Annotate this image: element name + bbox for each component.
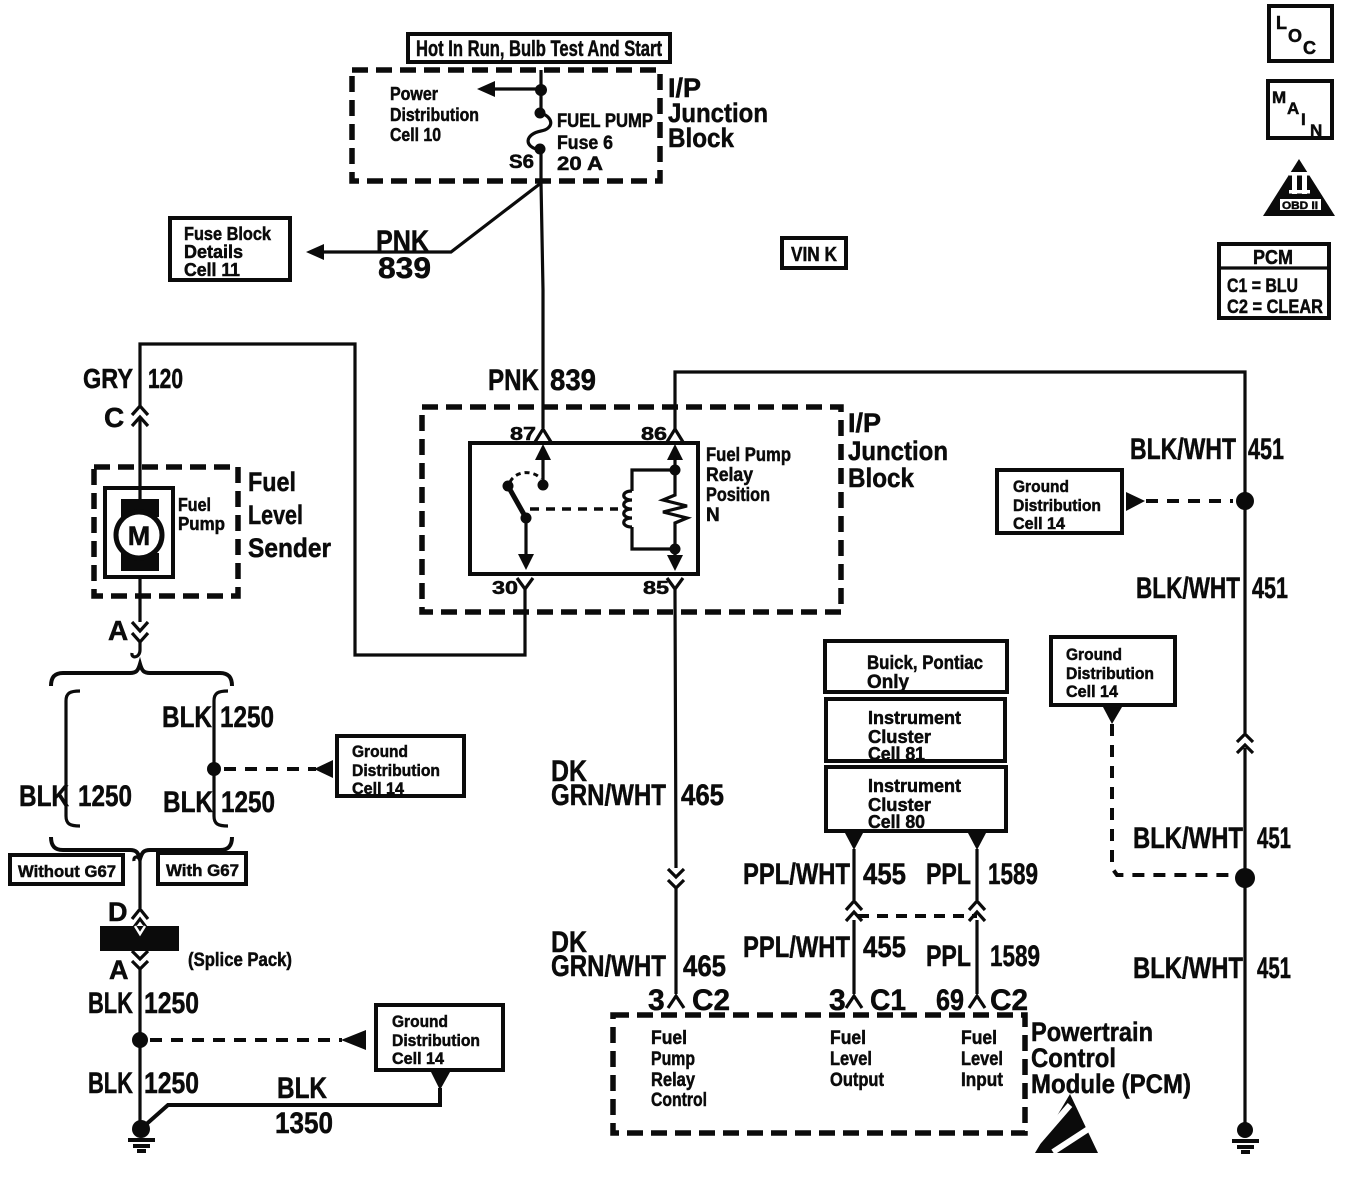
ground distribution cell 14 box (mid right)	[1051, 637, 1175, 705]
arrowhead from ground distribution box (upper right)	[1126, 492, 1145, 511]
dashed link to BLK/WHT wire	[1146, 499, 1233, 503]
svg-text:1250: 1250	[144, 987, 199, 1020]
wire label BLK 1250 (upper)	[88, 987, 199, 1020]
fuel level sender dashed box	[94, 467, 238, 596]
OBD II symbol triangle	[1263, 159, 1335, 216]
svg-text:C1 = BLU: C1 = BLU	[1227, 276, 1298, 297]
svg-text:86: 86	[641, 424, 667, 444]
I/P junction block (relay) dashed box	[422, 407, 841, 612]
wire tail with hook above brace	[132, 640, 140, 657]
fuel level input pin label	[961, 1028, 1004, 1091]
wire from fuse down to relay pin 87	[541, 149, 543, 428]
svg-text:M: M	[1272, 88, 1286, 107]
svg-text:Details: Details	[184, 242, 243, 262]
svg-text:BLK: BLK	[19, 780, 69, 813]
wire label PPL 1589 (upper)	[926, 858, 1038, 891]
fuse F6 FUEL PUMP fuse symbol	[528, 108, 551, 155]
svg-text:Cell 10: Cell 10	[390, 125, 441, 145]
svg-text:With G67: With G67	[166, 861, 239, 880]
pin 3 C2 label	[648, 984, 730, 1017]
svg-text:Fuel: Fuel	[248, 467, 296, 497]
svg-text:L: L	[1276, 13, 1287, 33]
I/P junction block (top) dashed box	[352, 70, 660, 181]
svg-text:87: 87	[510, 424, 536, 444]
svg-text:3: 3	[829, 984, 846, 1017]
wire label BLK/WHT 451 (second)	[1136, 572, 1288, 605]
hot in run bulb test and start label box	[408, 34, 670, 62]
ground G (left)	[128, 1120, 155, 1151]
svg-text:O: O	[1288, 26, 1302, 46]
splice pack block	[100, 926, 179, 951]
svg-text:Block: Block	[668, 123, 735, 153]
svg-text:1250: 1250	[78, 780, 132, 813]
arrowhead below cluster box (left)	[845, 833, 863, 850]
brace over ground wire choices	[51, 664, 232, 686]
wire label BLK 1250 (without G67)	[19, 780, 132, 813]
svg-text:Cell 14: Cell 14	[1066, 682, 1119, 701]
svg-text:Distribution: Distribution	[352, 761, 440, 780]
wire choice with G67 (bracketed line)	[214, 691, 228, 826]
svg-text:839: 839	[378, 252, 431, 285]
wire label BLK 1250 (with G67 lower)	[163, 786, 275, 819]
node coil top	[670, 465, 681, 476]
svg-text:Cell 14: Cell 14	[1013, 514, 1066, 533]
wire PPL/WHT 455	[852, 849, 855, 994]
wire from connector C to fuel pump motor	[138, 417, 141, 500]
svg-text:GRN/WHT: GRN/WHT	[551, 950, 666, 983]
instrument cluster cell 81 box	[826, 699, 1005, 764]
dashed link between PPL/WHT and PPL wires	[858, 914, 977, 918]
svg-text:C2 = CLEAR: C2 = CLEAR	[1227, 297, 1323, 318]
svg-text:Position: Position	[706, 485, 770, 506]
svg-text:FUEL PUMP: FUEL PUMP	[557, 111, 653, 132]
svg-text:Ground: Ground	[352, 742, 408, 761]
ground distribution cell 14 box (mid left)	[337, 736, 464, 798]
svg-text:M: M	[128, 521, 151, 551]
I/P junction block (top) label	[668, 73, 768, 153]
svg-text:Instrument: Instrument	[868, 708, 961, 728]
relay switch fixed contact	[503, 481, 514, 492]
with G67 label box	[158, 853, 246, 884]
wire label BLK/WHT 451 (first)	[1130, 433, 1284, 466]
wire from hot feed down to fuse	[539, 70, 542, 114]
node switch common	[521, 513, 532, 524]
svg-text:1250: 1250	[221, 786, 275, 819]
svg-text:Fuel: Fuel	[830, 1028, 866, 1049]
wire label PPL/WHT 455 (upper)	[743, 858, 906, 891]
wire label PNK 839 (at relay)	[488, 364, 596, 397]
arrow to power distribution	[477, 81, 541, 97]
wire from brace to splice pack	[134, 857, 140, 908]
wire PPL 1589	[975, 849, 978, 994]
node S-top junction dot	[535, 84, 547, 96]
wire DK GRN/WHT from relay pin 85 to PCM	[675, 594, 676, 994]
svg-text:C1: C1	[870, 984, 906, 1017]
wire label BLK/WHT 451 (fourth)	[1133, 952, 1291, 985]
wire label DK GRN/WHT 465 (lower)	[551, 926, 726, 983]
svg-text:Fuse Block: Fuse Block	[184, 224, 272, 244]
powertrain control module (PCM) label	[1031, 1017, 1191, 1099]
svg-text:Relay: Relay	[651, 1070, 695, 1091]
svg-text:Pump: Pump	[651, 1049, 695, 1070]
connector A in-line connector symbol	[108, 615, 148, 646]
svg-text:1589: 1589	[990, 940, 1040, 973]
svg-text:465: 465	[681, 779, 724, 812]
svg-text:Cell 14: Cell 14	[352, 779, 405, 798]
svg-text:(Splice Pack): (Splice Pack)	[188, 950, 292, 971]
svg-text:Pump: Pump	[178, 514, 225, 534]
svg-text:BLK/WHT: BLK/WHT	[1136, 572, 1240, 605]
svg-text:Ground: Ground	[1013, 477, 1069, 496]
svg-text:Cell 11: Cell 11	[184, 260, 240, 280]
wire switch common to pin 30 with arrow	[518, 518, 534, 570]
wire label PNK 839 (upper)	[376, 225, 431, 285]
pin 69 C2 connector symbol	[969, 996, 985, 1008]
splice pack SP connector diamond	[134, 919, 146, 935]
wire BLK 1350 from ground distribution to ground G	[142, 1088, 440, 1128]
fuse block details cell 11 box	[170, 218, 290, 280]
svg-text:Cell 81: Cell 81	[868, 744, 925, 764]
power distribution cell 10 reference label	[390, 84, 479, 145]
wire choice without G67 (bracketed line)	[66, 691, 80, 826]
fuel level output pin label	[830, 1028, 885, 1091]
wire BLK/WHT 451 main run from relay pin 86	[675, 372, 1245, 1124]
without G67 label box	[10, 855, 123, 884]
svg-text:Module (PCM): Module (PCM)	[1031, 1069, 1191, 1099]
svg-text:3: 3	[648, 984, 665, 1017]
wire from relay pin 30 over to fuel pump feed	[140, 344, 525, 655]
svg-text:I: I	[1301, 110, 1306, 129]
splice pack diamond lower half over block	[135, 926, 145, 934]
I/P junction block (relay) label	[848, 408, 948, 493]
powertrain control module PCM dashed box	[613, 1015, 1025, 1133]
pin 86 internal arrow	[667, 444, 683, 470]
wire branch to fuse block details	[322, 183, 541, 252]
PCM connector legend box	[1219, 244, 1329, 318]
svg-text:GRN/WHT: GRN/WHT	[551, 779, 666, 812]
svg-text:BLK/WHT: BLK/WHT	[1133, 952, 1243, 985]
svg-text:C2: C2	[990, 984, 1028, 1017]
svg-text:Instrument: Instrument	[868, 776, 961, 796]
wire label DK GRN/WHT 465 (upper)	[551, 755, 724, 812]
svg-text:Distribution: Distribution	[1066, 664, 1154, 683]
svg-text:A: A	[109, 955, 129, 985]
svg-text:455: 455	[863, 931, 906, 964]
svg-text:1589: 1589	[988, 858, 1038, 891]
svg-text:BLK: BLK	[277, 1072, 327, 1105]
node splice on with-G67 wire	[207, 762, 221, 776]
svg-text:PNK: PNK	[488, 364, 539, 397]
in-line connector on BLK/WHT wire	[1237, 734, 1253, 753]
node splice on BLK/WHT 451 (upper)	[1236, 492, 1254, 510]
relay K1 fuel pump relay box	[470, 443, 698, 574]
svg-text:BLK/WHT: BLK/WHT	[1133, 822, 1243, 855]
node splice on BLK 1250	[132, 1032, 148, 1048]
svg-text:Distribution: Distribution	[390, 105, 479, 125]
svg-text:VIN K: VIN K	[791, 244, 837, 266]
svg-text:PPL/WHT: PPL/WHT	[743, 931, 850, 964]
svg-text:Fuel: Fuel	[178, 495, 211, 515]
ESD sensitive symbol	[1035, 1094, 1098, 1153]
svg-text:Cell 14: Cell 14	[392, 1049, 445, 1068]
fuel pump relay position label	[706, 445, 791, 526]
svg-text:Fuse 6: Fuse 6	[557, 133, 613, 154]
svg-text:Hot In Run, Bulb Test And Star: Hot In Run, Bulb Test And Start	[416, 36, 663, 61]
in-line connector on DK GRN/WHT wire	[668, 869, 684, 888]
svg-text:Only: Only	[867, 672, 909, 693]
arrowhead below cluster box (right)	[968, 833, 986, 850]
svg-text:Distribution: Distribution	[1013, 496, 1101, 515]
wire coil bottom to pin 85 with arrow	[667, 549, 683, 571]
svg-text:A: A	[1287, 99, 1299, 118]
svg-text:Buick, Pontiac: Buick, Pontiac	[867, 653, 983, 674]
pin 86 connector symbol	[667, 429, 683, 442]
brace under ground wire choices	[51, 837, 232, 859]
svg-text:455: 455	[863, 858, 906, 891]
svg-text:451: 451	[1252, 572, 1288, 605]
svg-text:Level: Level	[961, 1049, 1003, 1070]
svg-text:Level: Level	[830, 1049, 872, 1070]
svg-text:OBD II: OBD II	[1282, 200, 1318, 212]
svg-text:Without G67: Without G67	[18, 862, 116, 881]
svg-text:N: N	[1310, 121, 1322, 140]
svg-text:BLK: BLK	[88, 987, 133, 1020]
svg-text:PPL: PPL	[926, 940, 971, 973]
svg-text:451: 451	[1257, 822, 1291, 855]
pin 3 C2 connector symbol	[668, 996, 684, 1008]
pin 3 C1 label	[829, 984, 906, 1017]
arrowhead into fuse block details box	[306, 244, 324, 260]
dashed link to ground distribution cell 14 (bottom left)	[150, 1038, 342, 1042]
svg-text:20 A: 20 A	[557, 154, 603, 175]
svg-text:BLK: BLK	[88, 1067, 133, 1100]
svg-text:Level: Level	[248, 500, 303, 530]
ground distribution cell 14 box (upper right)	[997, 470, 1122, 533]
relay switch blade	[508, 486, 526, 518]
wire label BLK 1250 (with G67 upper)	[162, 701, 274, 734]
relay switch travel arc (dashed)	[510, 473, 541, 482]
wire label PPL/WHT 455 (lower)	[743, 931, 906, 964]
arrowhead from ground distribution box (bottom left)	[341, 1030, 366, 1050]
svg-text:N: N	[706, 505, 720, 526]
LOC legend box	[1269, 6, 1332, 61]
connector symbol below splice pack	[132, 951, 148, 969]
svg-text:Fuel Pump: Fuel Pump	[706, 445, 791, 466]
svg-text:Relay: Relay	[706, 465, 753, 486]
svg-text:Block: Block	[848, 463, 915, 493]
wire label BLK 1250 (lower)	[88, 1067, 199, 1100]
relay coil L	[624, 491, 632, 527]
svg-text:1350: 1350	[275, 1107, 333, 1140]
svg-text:PPL/WHT: PPL/WHT	[743, 858, 850, 891]
svg-text:BLK: BLK	[162, 701, 212, 734]
svg-text:GRY: GRY	[83, 363, 133, 394]
wire label BLK 1350	[275, 1072, 333, 1140]
pin 85 connector symbol	[667, 578, 683, 594]
fuel level sender label	[248, 467, 331, 563]
relay coil branch rails	[632, 470, 675, 549]
VIN K label box	[782, 238, 846, 268]
svg-text:451: 451	[1257, 952, 1291, 985]
wire label BLK/WHT 451 (third)	[1133, 822, 1291, 855]
connector C in-line connector symbol	[104, 402, 148, 433]
wire from splice pack to ground G	[138, 969, 141, 1122]
wire from fuel pump to connector A	[138, 577, 141, 622]
dashed link from box down and over to BLK/WHT wire	[1112, 724, 1234, 875]
svg-text:Input: Input	[961, 1070, 1004, 1091]
svg-text:451: 451	[1248, 433, 1284, 466]
svg-text:BLK/WHT: BLK/WHT	[1130, 433, 1236, 466]
in-line connector on PPL/WHT wire	[846, 901, 862, 921]
pin 3 C1 connector symbol	[846, 996, 862, 1008]
relay resistor R	[663, 470, 687, 549]
svg-text:85: 85	[643, 578, 669, 598]
svg-text:Fuel: Fuel	[651, 1028, 687, 1049]
arrowhead below ground distribution box (bottom left)	[431, 1072, 450, 1090]
MAIN legend box	[1268, 81, 1332, 140]
svg-text:Ground: Ground	[1066, 645, 1122, 664]
svg-text:C2: C2	[692, 984, 730, 1017]
in-line connector on PPL wire	[969, 901, 985, 921]
fuel pump label	[178, 495, 225, 534]
fuel pump motor M1	[105, 488, 173, 577]
svg-text:1250: 1250	[220, 701, 274, 734]
ground G (right)	[1232, 1122, 1259, 1152]
buick pontiac only box	[825, 641, 1007, 693]
svg-text:PCM: PCM	[1253, 247, 1293, 269]
svg-text:C: C	[1303, 38, 1316, 58]
wire label GRY 120	[83, 363, 183, 394]
arrowhead from ground distribution box (mid left)	[314, 760, 333, 778]
node coil bottom	[670, 544, 681, 555]
svg-text:A: A	[108, 615, 128, 646]
svg-text:S6: S6	[509, 152, 534, 173]
svg-text:C: C	[104, 402, 124, 433]
svg-text:Control: Control	[651, 1090, 707, 1111]
svg-text:PPL: PPL	[926, 858, 971, 891]
pin 69 C2 label	[936, 984, 1028, 1017]
connector D symbol	[132, 909, 148, 919]
pin 87 internal arrow and contact	[535, 444, 551, 491]
fuel pump relay control pin label	[651, 1028, 707, 1111]
ground distribution cell 14 box (bottom left)	[376, 1005, 503, 1070]
svg-text:465: 465	[683, 950, 726, 983]
svg-text:BLK: BLK	[163, 786, 213, 819]
svg-text:Power: Power	[390, 84, 438, 104]
node splice on BLK/WHT 451 (lower)	[1235, 868, 1255, 888]
svg-text:Output: Output	[830, 1070, 885, 1091]
svg-text:I/P: I/P	[848, 408, 881, 438]
svg-text:839: 839	[550, 364, 596, 397]
svg-text:Cell 80: Cell 80	[868, 812, 925, 832]
relay actuation dashed link	[530, 507, 618, 511]
fuse value label FUEL PUMP Fuse 6 20 A	[557, 111, 653, 175]
svg-text:Distribution: Distribution	[392, 1031, 480, 1050]
wire label PPL 1589 (lower)	[926, 940, 1040, 973]
arrowhead below ground distribution box (mid right)	[1103, 707, 1122, 724]
svg-text:1250: 1250	[144, 1067, 199, 1100]
svg-text:Sender: Sender	[248, 533, 331, 563]
svg-text:69: 69	[936, 984, 964, 1017]
svg-text:120: 120	[148, 363, 183, 394]
instrument cluster cell 80 box	[826, 767, 1006, 832]
pin 87 connector symbol	[535, 429, 551, 442]
svg-text:Junction: Junction	[848, 436, 948, 466]
dashed link to ground distribution cell 14 (mid left)	[224, 767, 316, 771]
svg-text:D: D	[108, 897, 128, 927]
pin 30 connector symbol	[517, 578, 533, 594]
svg-text:Fuel: Fuel	[961, 1028, 997, 1049]
svg-text:Ground: Ground	[392, 1012, 448, 1031]
svg-text:30: 30	[492, 578, 518, 598]
